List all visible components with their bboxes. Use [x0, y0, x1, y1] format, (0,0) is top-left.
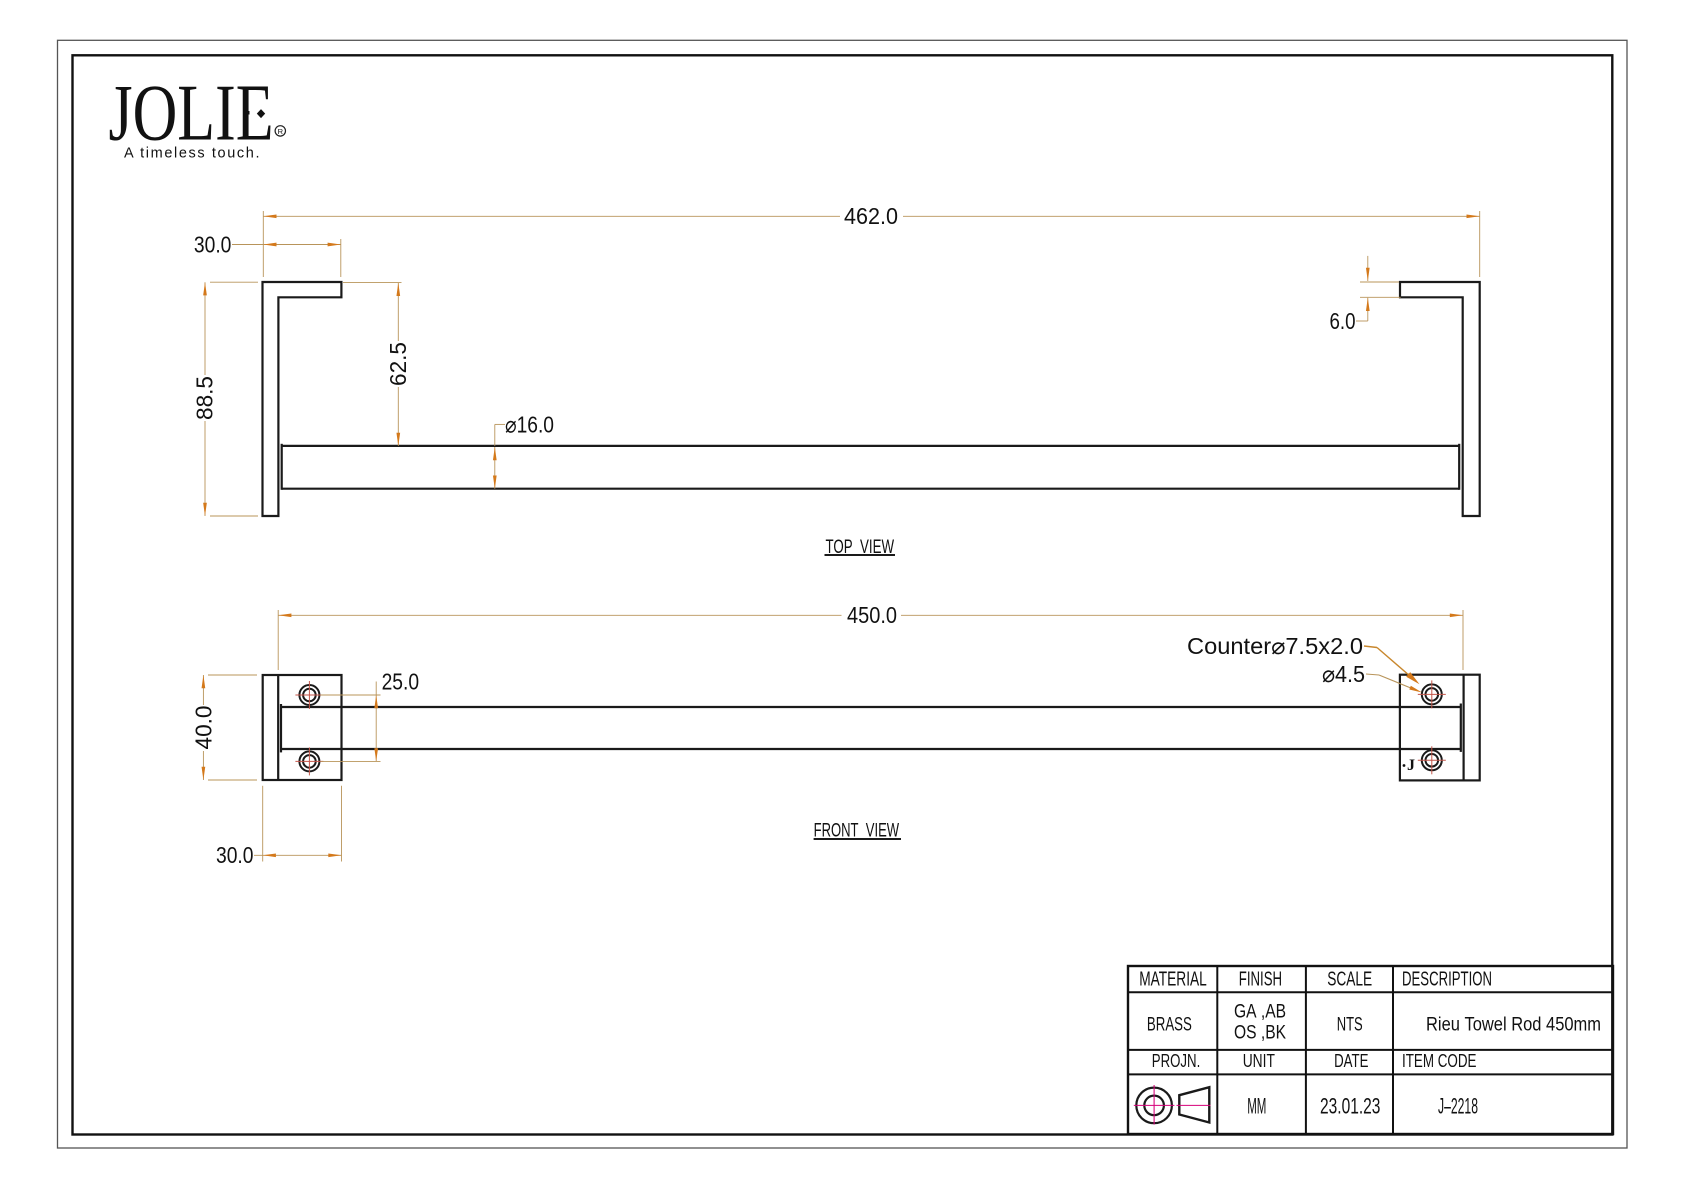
right rod flange (front view) — [1460, 704, 1462, 752]
svg-text:DESCRIPTION: DESCRIPTION — [1402, 968, 1492, 990]
dimension dia 16.0 (top view) — [495, 424, 505, 488]
dimension 25.0 (front view) — [321, 682, 381, 762]
screw hole top-left — [299, 685, 319, 705]
dimension 462.0 (top view) — [263, 211, 1479, 277]
towel rod (front view) — [281, 706, 1461, 708]
svg-text:25.0: 25.0 — [382, 668, 420, 694]
svg-text:Rieu Towel Rod 450mm: Rieu Towel Rod 450mm — [1426, 1013, 1601, 1035]
dimension 88.5 (top view) — [205, 282, 258, 516]
svg-text:40.0: 40.0 — [190, 706, 216, 750]
svg-text:J: J — [1407, 757, 1415, 774]
dimension 30.0 (front view) — [254, 786, 342, 862]
svg-text:NTS: NTS — [1337, 1013, 1363, 1035]
projection symbol — [1136, 1087, 1209, 1123]
screw hole bottom-right — [1422, 750, 1442, 770]
svg-text:6.0: 6.0 — [1330, 308, 1356, 334]
svg-text:GA ,AB: GA ,AB — [1234, 1001, 1286, 1023]
dimension 40.0 (front view) — [203, 675, 257, 780]
svg-text:88.5: 88.5 — [191, 376, 217, 420]
svg-text:UNIT: UNIT — [1243, 1051, 1275, 1071]
svg-text:SCALE: SCALE — [1327, 968, 1372, 990]
svg-text:J–2218: J–2218 — [1438, 1094, 1478, 1119]
JOLIE logo — [109, 70, 286, 158]
towel rod (top view) — [282, 445, 1460, 447]
svg-text:OS ,BK: OS ,BK — [1234, 1021, 1286, 1043]
left bracket (top view) — [263, 282, 342, 516]
svg-text:462.0: 462.0 — [844, 203, 898, 229]
svg-text:FINISH: FINISH — [1239, 968, 1282, 990]
svg-text:⌀4.5: ⌀4.5 — [1322, 661, 1365, 687]
svg-text:DATE: DATE — [1334, 1051, 1368, 1071]
svg-text:MM: MM — [1247, 1094, 1266, 1119]
svg-text:30.0: 30.0 — [216, 842, 254, 868]
svg-text:450.0: 450.0 — [847, 602, 897, 628]
right wall plate (front view) — [1400, 675, 1480, 781]
leader Counter 7.5x2.0 (front view) — [1364, 646, 1414, 680]
svg-text:JOLIE: JOLIE — [109, 70, 274, 158]
dimension 450.0 (front view) — [278, 610, 1463, 670]
svg-text:ITEM CODE: ITEM CODE — [1402, 1051, 1477, 1071]
svg-text:62.5: 62.5 — [385, 342, 411, 386]
left wall plate (front view) — [263, 675, 342, 780]
screw hole top-right — [1422, 684, 1442, 704]
svg-text:30.0: 30.0 — [194, 231, 232, 257]
dimension 6.0 (top view) — [1356, 256, 1401, 321]
svg-text:R: R — [278, 127, 284, 136]
svg-text:PROJN.: PROJN. — [1152, 1051, 1201, 1071]
svg-text:BRASS: BRASS — [1147, 1013, 1192, 1035]
svg-text:MATERIAL: MATERIAL — [1139, 968, 1207, 990]
dimension 62.5 (top view) — [343, 283, 402, 446]
left rod flange (front view) — [280, 704, 282, 752]
svg-text:23.01.23: 23.01.23 — [1320, 1094, 1380, 1119]
left rod flange (top view) — [281, 444, 283, 490]
svg-text:⌀16.0: ⌀16.0 — [505, 411, 554, 437]
dimension 30.0 (top view) — [232, 239, 341, 277]
screw hole bottom-left — [299, 751, 319, 771]
right bracket (top view) — [1400, 282, 1480, 516]
leader dia 4.5 (front view) — [1366, 674, 1412, 689]
right rod flange (top view) — [1458, 444, 1460, 490]
svg-text:Counter⌀7.5x2.0: Counter⌀7.5x2.0 — [1187, 633, 1363, 659]
